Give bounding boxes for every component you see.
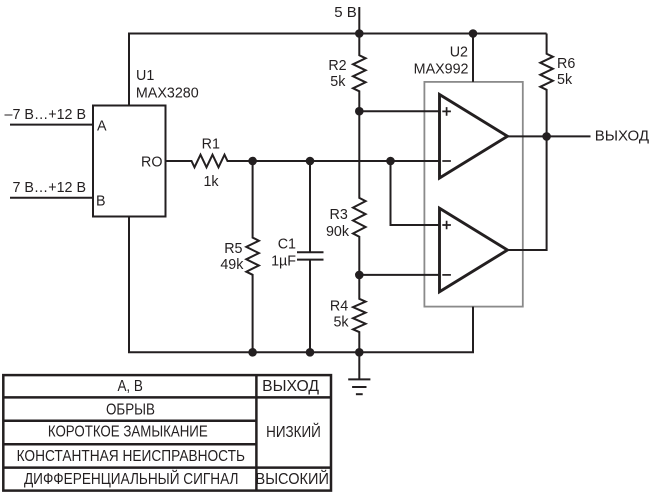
node dot: ground node xyxy=(355,348,364,357)
svg-text:5k: 5k xyxy=(557,72,573,88)
svg-text:U2: U2 xyxy=(450,45,468,61)
node dot: 5V rail / R2 top xyxy=(355,29,364,38)
svg-text:U1: U1 xyxy=(136,68,154,84)
svg-text:1µF: 1µF xyxy=(271,253,296,269)
wire: U2 power pin from rail to box top xyxy=(472,34,474,82)
U2a + sign xyxy=(442,107,451,116)
svg-text:A: A xyxy=(97,119,107,135)
svg-text:R2: R2 xyxy=(328,58,346,74)
svg-text:А, В: А, В xyxy=(117,378,143,395)
svg-text:RO: RO xyxy=(141,155,162,171)
svg-text:7 В…+12 В: 7 В…+12 В xyxy=(12,180,86,196)
svg-text:ДИФФЕРЕНЦИАЛЬНЫЙ СИГНАЛ: ДИФФЕРЕНЦИАЛЬНЫЙ СИГНАЛ xyxy=(24,469,239,488)
svg-text:R3: R3 xyxy=(330,207,348,223)
node dot: output node xyxy=(542,132,551,141)
node dot: C1 bottom xyxy=(306,348,315,357)
node dot: R5 bottom xyxy=(248,348,257,357)
ground symbol xyxy=(348,352,370,394)
svg-text:C1: C1 xyxy=(278,237,296,253)
U2a - sign xyxy=(442,160,451,162)
resistor R1 (horizontal, 1k) from RO xyxy=(166,155,441,168)
svg-text:R1: R1 xyxy=(202,137,220,153)
capacitor C1 (1uF) xyxy=(297,161,324,352)
node dot: R5 top xyxy=(248,157,257,166)
node dot: U2 power pin on rail xyxy=(469,29,478,38)
wire: 5V supply stub xyxy=(358,7,360,34)
table: row line under header xyxy=(3,396,331,399)
svg-text:B: B xyxy=(96,193,106,209)
wire: U2a output to OUT xyxy=(508,135,591,137)
svg-text:49k: 49k xyxy=(220,257,244,273)
U2b + sign xyxy=(442,221,451,230)
svg-text:ВЫСОКИЙ: ВЫСОКИЙ xyxy=(256,469,329,488)
resistor R5 (vertical, 49k) xyxy=(246,161,259,352)
svg-text:MAX992: MAX992 xyxy=(414,61,469,77)
svg-text:90k: 90k xyxy=(326,224,350,240)
svg-text:5 В: 5 В xyxy=(334,4,357,21)
IC U2 MAX992 gray box xyxy=(424,82,522,307)
svg-text:ВЫХОД: ВЫХОД xyxy=(262,378,319,395)
table: row line under ОБРЫВ (left column only) xyxy=(3,420,256,423)
table: row line under КОРОТКОЕ ЗАМЫКАНИЕ (left column only) xyxy=(3,443,256,446)
svg-text:ВЫХОД: ВЫХОД xyxy=(595,127,649,144)
svg-text:ОБРЫВ: ОБРЫВ xyxy=(106,402,155,419)
wire: input B xyxy=(10,197,93,199)
U2b - sign xyxy=(442,274,451,276)
wire: top 5V rail with left riser to U1 xyxy=(129,34,547,106)
wire: U2b output riser xyxy=(508,136,547,250)
wire: bottom ground rail with risers xyxy=(129,217,473,353)
svg-text:R4: R4 xyxy=(330,299,348,315)
svg-text:5k: 5k xyxy=(333,315,349,331)
resistor R3 (vertical, 90k) xyxy=(353,111,366,275)
svg-text:R6: R6 xyxy=(557,56,575,72)
table: column divider xyxy=(255,375,258,491)
resistor R2 (vertical, 5k) xyxy=(353,34,366,112)
IC U1 MAX3280 box xyxy=(93,106,166,217)
svg-text:–7 В…+12 В: –7 В…+12 В xyxy=(5,107,86,123)
wire: to U2a + input xyxy=(359,110,440,112)
svg-text:MAX3280: MAX3280 xyxy=(136,86,199,102)
svg-text:1k: 1k xyxy=(203,174,219,190)
resistor R4 (vertical, 5k) xyxy=(353,275,366,352)
table: row line above last row xyxy=(3,466,331,469)
op-amp U2a triangle xyxy=(440,95,508,179)
node dot: R3/R4 divider junction xyxy=(355,271,364,280)
svg-text:КОРОТКОЕ ЗАМЫКАНИЕ: КОРОТКОЕ ЗАМЫКАНИЕ xyxy=(48,424,208,441)
wire: divider to U2b - input xyxy=(359,274,440,276)
svg-text:КОНСТАНТНАЯ НЕИСПРАВНОСТЬ: КОНСТАНТНАЯ НЕИСПРАВНОСТЬ xyxy=(17,448,245,465)
wire: input A xyxy=(10,124,93,126)
node dot: R2 bottom / comparator + node xyxy=(355,107,364,116)
resistor R6 (vertical, 5k) xyxy=(540,34,553,137)
svg-text:5k: 5k xyxy=(330,74,346,90)
node dot: branch to U2b + input xyxy=(386,157,395,166)
node dot: C1 top xyxy=(306,157,315,166)
wire: branch down to U2b + input xyxy=(391,161,441,225)
op-amp U2b triangle xyxy=(440,208,508,292)
table: truth table frame xyxy=(3,375,331,491)
svg-text:R5: R5 xyxy=(224,241,242,257)
svg-text:НИЗКИЙ: НИЗКИЙ xyxy=(266,422,321,441)
